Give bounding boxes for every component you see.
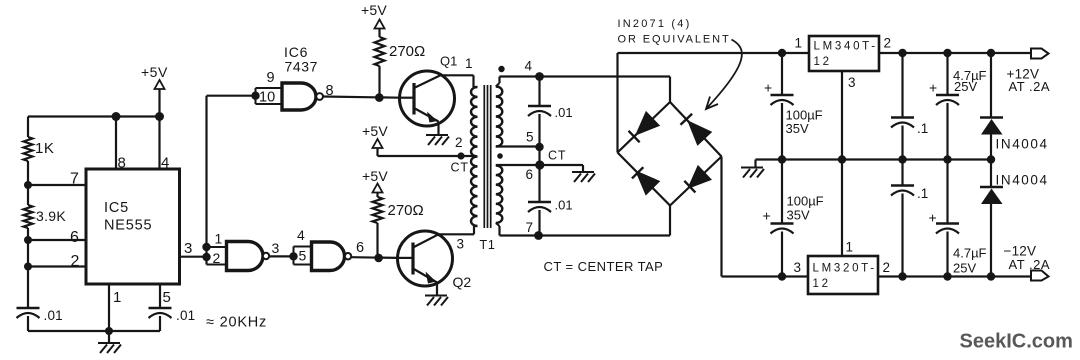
svg-text:IN4004: IN4004: [996, 173, 1049, 188]
svg-text:+5V: +5V: [362, 123, 388, 139]
svg-text:+: +: [764, 80, 772, 96]
svg-text:+5V: +5V: [362, 168, 388, 184]
svg-text:.1: .1: [917, 186, 928, 201]
svg-text:+5V: +5V: [141, 64, 168, 80]
svg-text:3.9K: 3.9K: [36, 208, 66, 224]
svg-text:8: 8: [118, 155, 126, 172]
svg-text:6: 6: [356, 240, 364, 256]
svg-text:Q1: Q1: [440, 54, 457, 69]
svg-text:AT .2A: AT .2A: [1009, 79, 1051, 94]
svg-text:3: 3: [184, 240, 192, 257]
svg-text:5: 5: [163, 289, 171, 306]
svg-text:6: 6: [526, 167, 534, 182]
svg-text:4: 4: [161, 155, 169, 172]
svg-text:1K: 1K: [35, 140, 54, 157]
svg-text:4: 4: [297, 227, 305, 243]
svg-text:SeekIC.com: SeekIC.com: [960, 331, 1073, 353]
svg-text:8: 8: [326, 83, 334, 99]
svg-text:T1: T1: [480, 238, 496, 252]
svg-text:1: 1: [113, 289, 121, 306]
svg-text:.1: .1: [917, 121, 928, 136]
svg-text:270Ω: 270Ω: [388, 202, 424, 219]
svg-text:.01: .01: [44, 308, 63, 323]
svg-text:25V: 25V: [954, 79, 977, 94]
svg-text:+: +: [929, 210, 937, 226]
svg-text:12: 12: [814, 56, 832, 68]
svg-text:5: 5: [526, 130, 534, 145]
svg-text:+5V: +5V: [361, 2, 387, 18]
svg-text:6: 6: [70, 229, 79, 246]
svg-text:OR EQUIVALENT: OR EQUIVALENT: [618, 34, 731, 46]
svg-text:IN2071 (4): IN2071 (4): [618, 18, 692, 30]
svg-text:CT = CENTER TAP: CT = CENTER TAP: [544, 259, 664, 274]
svg-text:7: 7: [526, 220, 534, 235]
svg-text:1: 1: [465, 56, 473, 71]
svg-text:100µF: 100µF: [787, 194, 824, 209]
svg-text:AT .2A: AT .2A: [1009, 257, 1051, 272]
svg-text:2: 2: [455, 135, 463, 150]
svg-text:3: 3: [457, 237, 465, 252]
svg-text:IC5: IC5: [104, 200, 129, 216]
svg-text:.01: .01: [555, 198, 573, 213]
svg-text:2: 2: [883, 260, 891, 275]
svg-text:2: 2: [213, 250, 221, 266]
svg-text:9: 9: [267, 70, 275, 86]
svg-text:35V: 35V: [786, 121, 809, 136]
svg-text:3: 3: [794, 260, 802, 275]
svg-text:LM320T-: LM320T-: [813, 263, 877, 275]
svg-text:10: 10: [259, 90, 275, 106]
svg-text:1: 1: [846, 240, 854, 255]
svg-text:4: 4: [525, 59, 533, 74]
svg-text:CT: CT: [451, 161, 469, 175]
svg-text:3: 3: [848, 75, 856, 90]
svg-text:1: 1: [215, 231, 223, 247]
svg-text:+: +: [929, 80, 937, 96]
svg-text:1: 1: [795, 36, 803, 51]
svg-text:IN4004: IN4004: [996, 137, 1049, 152]
svg-text:7437: 7437: [285, 59, 319, 75]
svg-text:7: 7: [70, 171, 79, 188]
svg-text:NE555: NE555: [104, 218, 152, 234]
svg-text:4.7µF: 4.7µF: [953, 246, 987, 261]
svg-text:.01: .01: [176, 308, 195, 323]
svg-text:≈ 20KHz: ≈ 20KHz: [206, 315, 267, 331]
svg-text:35V: 35V: [787, 208, 810, 223]
svg-text:12: 12: [813, 278, 831, 290]
svg-text:LM340T-: LM340T-: [814, 41, 878, 53]
svg-text:Q2: Q2: [453, 274, 472, 290]
svg-text:2: 2: [884, 36, 892, 51]
svg-text:.01: .01: [555, 105, 573, 120]
svg-text:25V: 25V: [953, 261, 976, 276]
svg-text:CT: CT: [548, 149, 566, 163]
svg-text:3: 3: [272, 240, 280, 256]
svg-text:+: +: [763, 208, 771, 224]
svg-text:2: 2: [71, 253, 80, 270]
svg-text:5: 5: [299, 248, 307, 264]
svg-text:270Ω: 270Ω: [389, 43, 425, 60]
